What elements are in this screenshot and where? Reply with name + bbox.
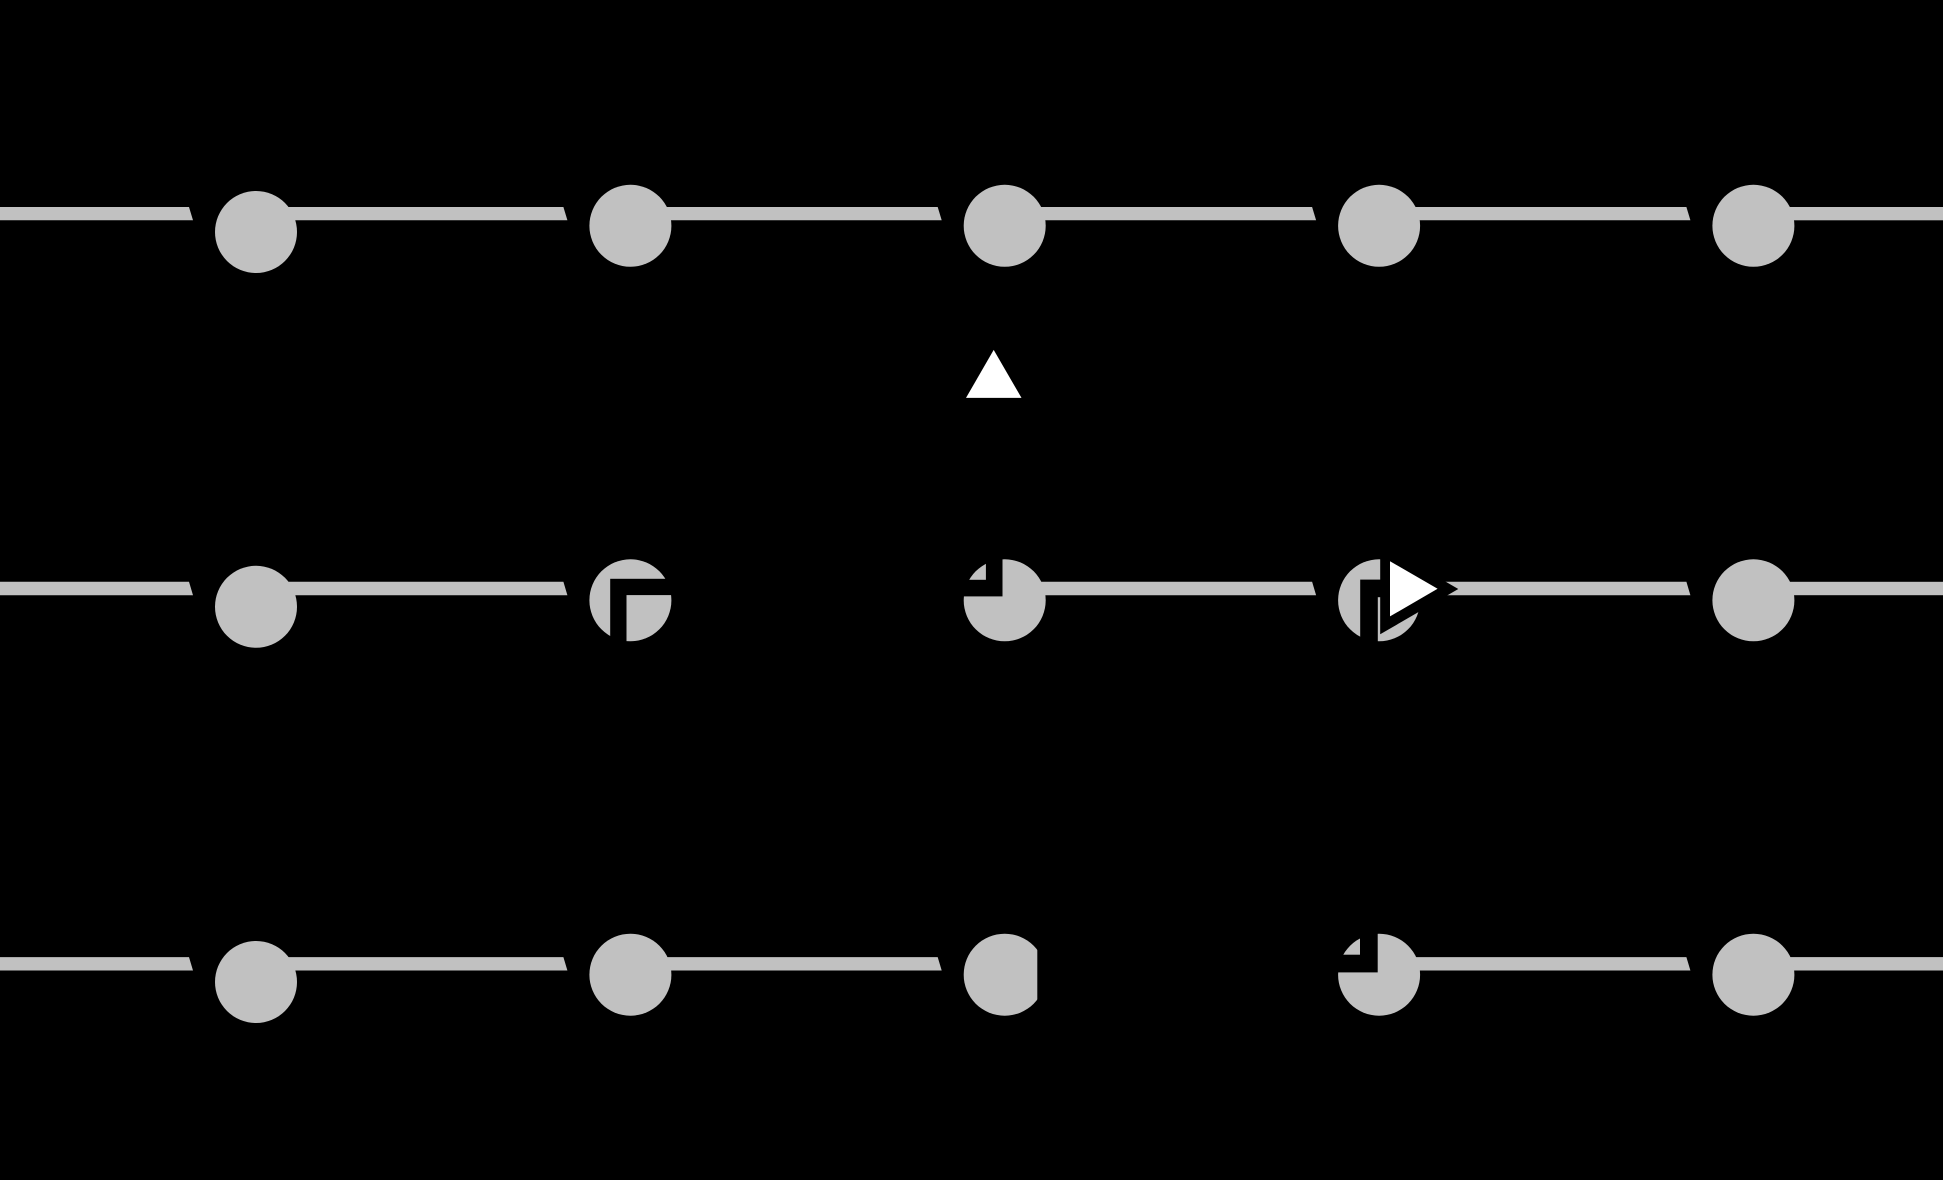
- node R2C3: [964, 559, 1046, 641]
- wire row3 seg0 (left edge to before node R3C1): [0, 957, 193, 970]
- node R3C5: [1712, 934, 1794, 1016]
- wire row1 seg2 (R1C2 to before R1C3): [630, 207, 941, 220]
- tooltip arrow below node R1C3: [966, 350, 1022, 398]
- wire row1 seg5 (R1C5 to right edge): [1753, 207, 1943, 220]
- wire row2 seg5 (R2C5 to right edge): [1753, 582, 1943, 595]
- node R2C4: [1338, 559, 1420, 641]
- wire row3 seg1 (R3C1 to before R3C2): [256, 957, 567, 970]
- node R3C4: [1338, 934, 1420, 1016]
- node R2C2: [589, 559, 671, 641]
- node R3C3: [964, 934, 1046, 1016]
- node R3C1: [215, 941, 297, 1023]
- square outline icon on node R2C2 (top-left corner visible): [618, 587, 682, 651]
- square outline icon on node R3C4 (bottom-right corner visible): [1307, 901, 1369, 963]
- white play triangle on node R2C4: [1390, 561, 1438, 616]
- wire row3 seg5 (R3C5 to right edge): [1753, 957, 1943, 970]
- wire row1 seg4 (R1C4 to before R1C5): [1379, 207, 1690, 220]
- node R2C1: [215, 566, 297, 648]
- wire row3 seg4 (R3C4 to before R3C5): [1379, 957, 1690, 970]
- wire row3 seg2 (R3C2 to before R3C3): [630, 957, 941, 970]
- node R1C1: [215, 191, 297, 273]
- node R1C3: [964, 185, 1046, 267]
- wire row2 seg3 (R2C3 to before R2C4): [1005, 582, 1316, 595]
- wire row2 seg0 (left edge to before node R2C1): [0, 582, 193, 595]
- node R2C5: [1712, 559, 1794, 641]
- node R3C2: [589, 934, 671, 1016]
- wire row1 seg3 (R1C3 to before R1C4): [1005, 207, 1316, 220]
- black play triangle outline on node R2C4: [1380, 544, 1458, 635]
- square outline icon on node R2C3 (bottom-right corner visible): [931, 525, 994, 588]
- black panel cutting right side of node R3C3: [1037, 880, 1332, 1060]
- node R1C2: [589, 185, 671, 267]
- node R1C4: [1338, 185, 1420, 267]
- square outline icon on node R2C4 (top-left corner visible): [1369, 588, 1431, 650]
- node R1C5: [1712, 185, 1794, 267]
- wire row2 seg4 (R2C4 to before R2C5): [1379, 582, 1690, 595]
- wire row1 seg1 (R1C1 to before R1C2): [256, 207, 567, 220]
- wire row2 seg1 (R2C1 to before R2C2): [256, 582, 567, 595]
- wire row1 seg0 (left edge to before node R1C1): [0, 207, 193, 220]
